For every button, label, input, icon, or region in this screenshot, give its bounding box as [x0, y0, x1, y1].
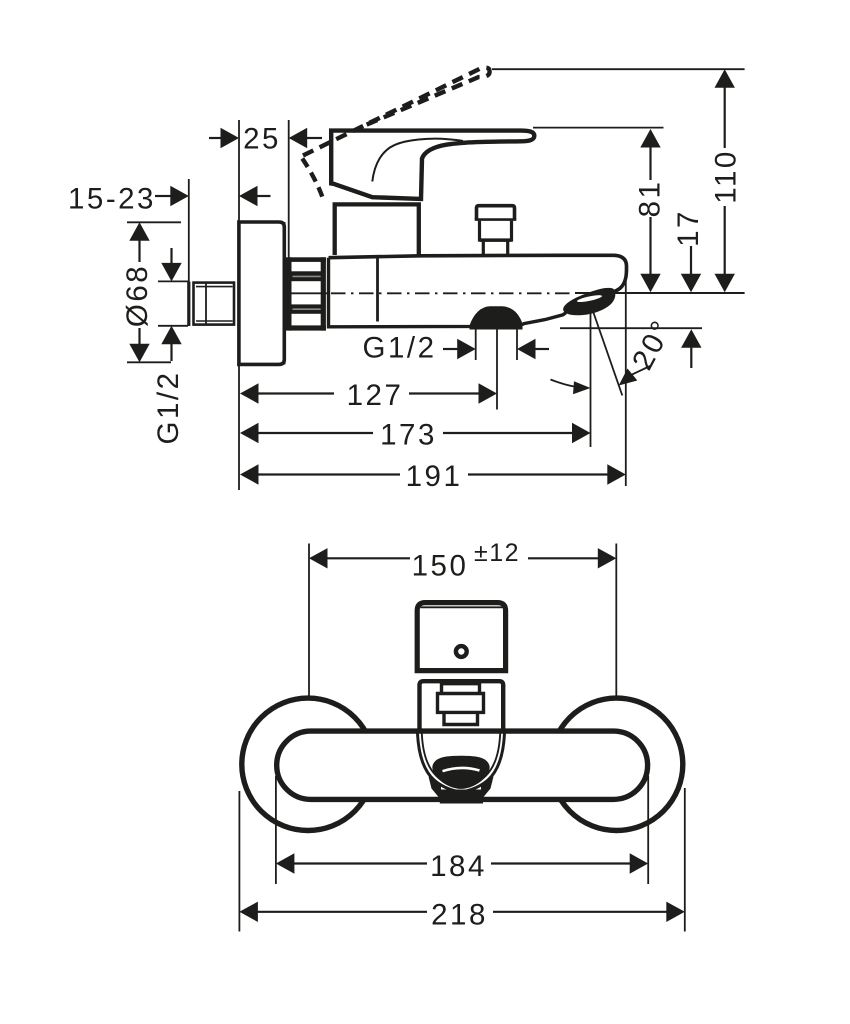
dim O68 top extension tick	[127, 221, 181, 223]
body internal division line	[376, 258, 379, 322]
svg-text:110: 110	[710, 149, 743, 204]
threaded nipple end cap	[187, 282, 190, 327]
dim 17 bottom extension tick	[560, 327, 702, 329]
handle base and lever (solid)	[331, 131, 534, 199]
right escutcheon circle	[550, 698, 682, 830]
svg-text:15-23: 15-23	[68, 183, 156, 216]
cartridge housing (front view)	[420, 681, 504, 731]
dim 184 row	[276, 853, 295, 873]
dim 218 extension lines	[238, 791, 240, 932]
handle raised back skirt (dashed)	[302, 159, 323, 200]
cartridge tier 2	[438, 694, 484, 713]
spout housing U outer	[418, 733, 505, 792]
aerator bowl highlight	[443, 768, 480, 771]
dim 218 row	[239, 902, 258, 922]
svg-text:G1/2: G1/2	[363, 332, 437, 365]
svg-text:218: 218	[431, 898, 488, 931]
dim G1/2 left label (rotated)	[152, 371, 185, 445]
dim O68 down arrow	[129, 344, 149, 363]
center line solid extension to right dims	[575, 292, 745, 294]
dim G1/2 left vertical: up arrow	[161, 326, 181, 345]
handle crease curve	[372, 139, 463, 182]
dim 127 extension line	[496, 330, 498, 410]
spout lip inner highlight	[577, 294, 603, 304]
cartridge tier 3	[444, 713, 478, 725]
spout outlet lip (filled)	[563, 288, 615, 315]
dim G1/2 left tick top	[158, 280, 189, 282]
dim 15-23 label	[68, 183, 156, 216]
spout housing U inner	[422, 733, 500, 787]
dim 25 label	[243, 123, 281, 156]
20 degree leader arrow on diagonal	[619, 369, 638, 386]
dim 25 second extension line	[288, 120, 290, 258]
dim O68 up arrow	[129, 222, 149, 241]
aerator bump (filled)	[470, 308, 523, 330]
handle set-screw hole	[456, 646, 467, 657]
aerator pedestal (filled)	[429, 777, 494, 804]
left escutcheon circle	[242, 698, 374, 830]
dim 184 extension lines	[275, 776, 277, 884]
svg-text:25: 25	[243, 123, 281, 156]
dim 173 extension line	[590, 307, 592, 447]
svg-text:191: 191	[406, 460, 463, 493]
svg-text:Ø68: Ø68	[121, 264, 154, 327]
svg-text:173: 173	[380, 419, 437, 452]
dim O68 bottom extension tick	[127, 361, 171, 363]
dim 15-23 extension line	[188, 179, 190, 282]
svg-text:184: 184	[430, 850, 487, 883]
dim 150 extension lines	[308, 544, 310, 697]
20 degree arc with arrow	[551, 380, 587, 389]
svg-text:150: 150	[412, 550, 469, 583]
dim 127 row	[240, 383, 259, 403]
dim 15-23 left-pointing arrow	[239, 186, 258, 206]
dim G1/2 bottom (aerator)	[363, 332, 437, 365]
dim 191 row	[240, 464, 259, 484]
svg-text:17: 17	[672, 209, 705, 247]
svg-text:81: 81	[634, 180, 667, 218]
dim 173 row	[240, 423, 259, 443]
handle raised position (dashed)	[303, 68, 490, 156]
wall escutcheon (O68 flange)	[239, 222, 284, 364]
cartridge collar	[335, 204, 419, 255]
dim O68 label (rotated)	[121, 264, 154, 327]
dim 81 top extension tick	[533, 127, 664, 129]
dim 150 arrows and line	[309, 548, 328, 568]
threaded nipple body	[194, 283, 235, 325]
union nut ribs	[285, 257, 326, 330]
handle (front view)	[417, 603, 505, 671]
diverter knob	[477, 206, 515, 220]
center line (dash-dot)	[290, 292, 330, 294]
cartridge tier 1	[442, 684, 480, 694]
dim 25 left arrow	[221, 128, 240, 148]
20 degree label (rotated)	[626, 314, 680, 376]
dim G1/2 left tick bottom	[158, 325, 188, 327]
dim 191 extension line	[625, 261, 627, 487]
20 degree reference diagonal	[592, 307, 623, 396]
svg-text:G1/2: G1/2	[152, 371, 185, 445]
svg-text:127: 127	[347, 379, 404, 412]
svg-text:±12: ±12	[474, 539, 520, 567]
aerator bowl (filled)	[432, 756, 489, 789]
dim 25 right arrow	[289, 128, 308, 148]
dim G1/2 left vertical: down arrow	[170, 248, 172, 265]
wall plane line	[238, 120, 240, 490]
dim G1/2 bottom extension lines	[475, 330, 477, 361]
dim 15-23 right-pointing arrow	[155, 195, 171, 197]
faucet body (side view) outline	[329, 258, 567, 327]
dim 17 vertical	[672, 209, 705, 247]
dim 110 top extension tick	[492, 68, 745, 70]
body pill (stadium)	[277, 731, 648, 799]
dim 110 vertical	[715, 69, 735, 88]
dim 81 vertical	[640, 129, 660, 148]
